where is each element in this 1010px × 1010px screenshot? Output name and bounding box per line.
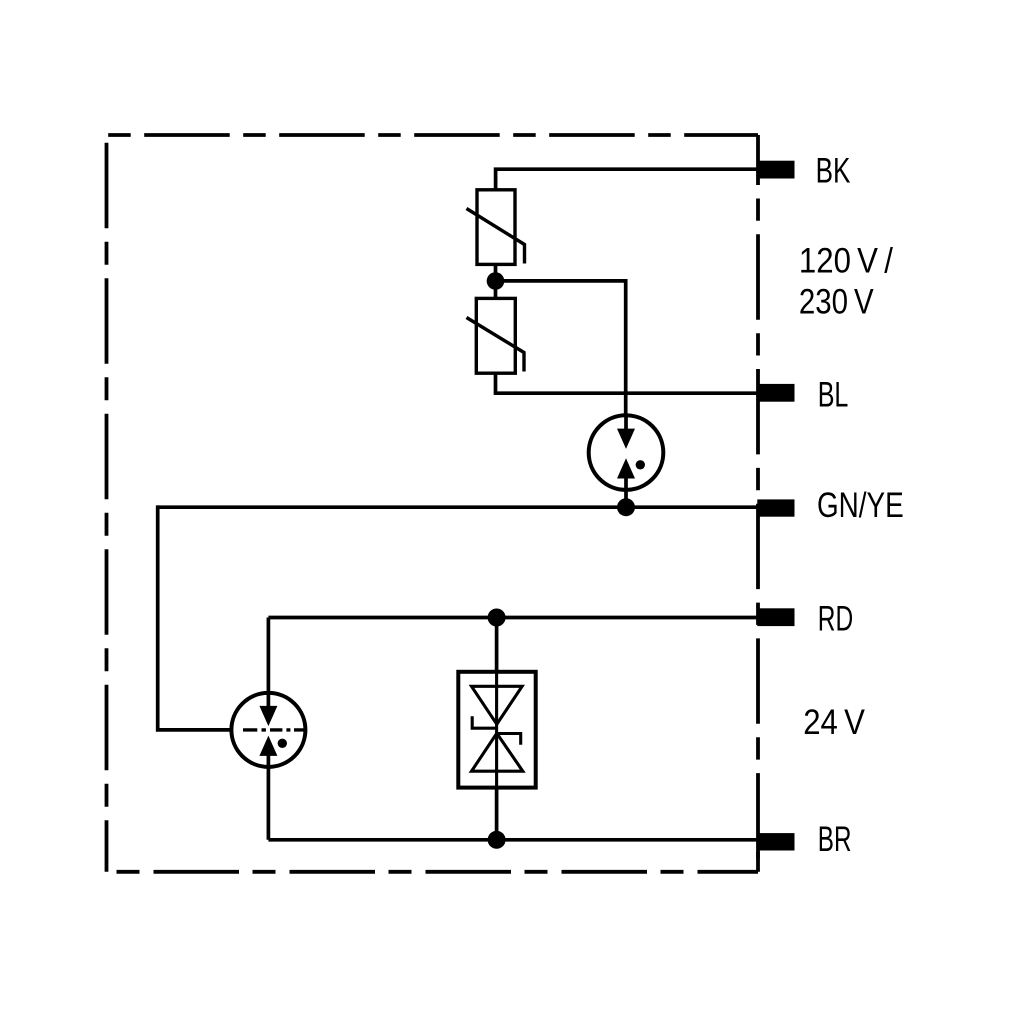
wire BL: varistor RV2 bottom to BL terminal (496, 373, 759, 393)
terminal RD (757, 608, 794, 626)
svg-text:BL: BL (818, 375, 849, 415)
terminal BK (757, 161, 794, 179)
svg-text:24 V: 24 V (803, 702, 865, 742)
varistor RV1 (top MOV) body (477, 190, 515, 265)
varistor RV2 diagonal stroke (467, 318, 525, 372)
svg-text:120 V /: 120 V / (799, 241, 893, 281)
terminal GN/YE (757, 499, 794, 516)
node: BR wire junction (488, 831, 506, 849)
wire: RD node down to suppressor diode box (495, 618, 499, 673)
svg-text:BR: BR (818, 819, 852, 859)
terminal BL (757, 384, 794, 402)
wire BR: from below spark gap F2 to BR terminal (268, 838, 758, 842)
node: RD wire to suppressor diode (488, 609, 506, 627)
node: junction between varistors (487, 272, 505, 290)
varistor RV1 diagonal stroke (467, 209, 525, 264)
wire: varistor junction to spark-gap F1 (down to circle) (496, 264, 626, 414)
wire: suppressor diode to BR node (495, 788, 499, 840)
svg-text:GN/YE: GN/YE (817, 485, 904, 525)
spark gap F2 (triggered, isolated, lower-left) (231, 618, 306, 840)
svg-text:BK: BK (816, 151, 851, 191)
wire GN/YE: from left drop to GN/YE terminal (158, 505, 758, 509)
wire BK: varistor top to BK terminal (496, 169, 758, 190)
spark gap F1 (triggered gas discharge tube, upper) (589, 414, 664, 507)
suppressor diode V1 (bidirectional TVS) box (458, 672, 535, 788)
wire RD: from above spark gap F2 to RD terminal (268, 616, 758, 620)
terminal BR (757, 833, 794, 850)
svg-text:RD: RD (818, 599, 853, 639)
suppressor diode V1 symbol (472, 672, 523, 788)
wire: GN/YE left drop down to spark gap F2 (158, 505, 230, 730)
varistor RV2 (lower MOV) body (476, 298, 515, 373)
enclosure dash-dot border (107, 135, 759, 872)
svg-text:230 V: 230 V (799, 282, 874, 322)
node: spark gap F1 to GN/YE wire (617, 498, 635, 516)
